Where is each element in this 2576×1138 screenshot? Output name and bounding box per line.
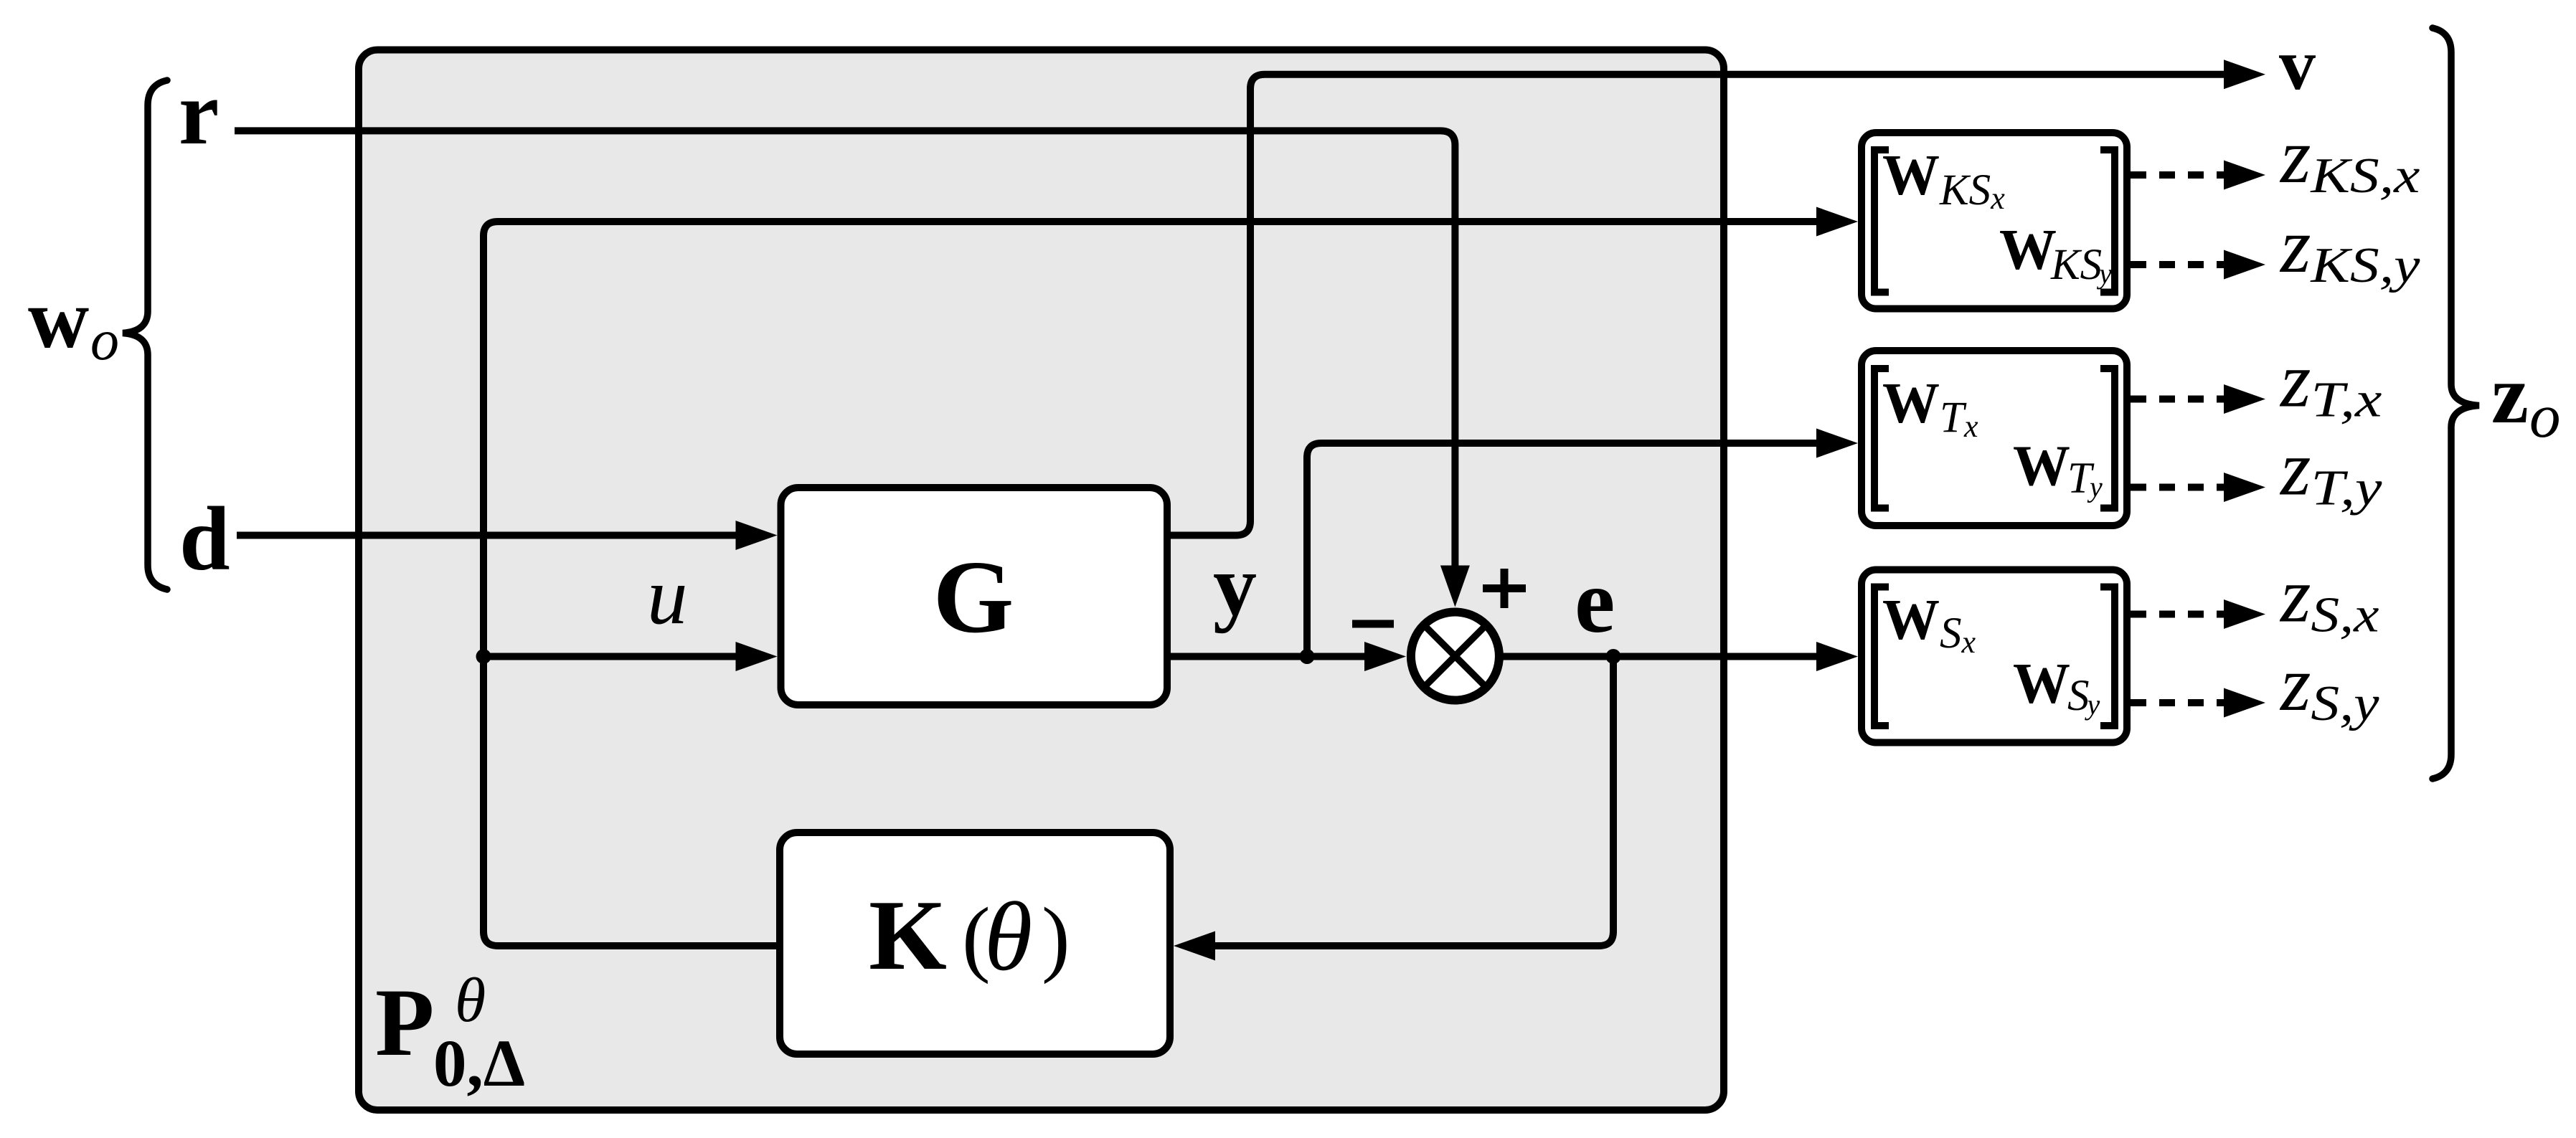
svg-text:e: e (1575, 551, 1615, 652)
svg-text:r: r (179, 63, 219, 163)
svg-text:u: u (647, 551, 688, 641)
svg-text:G: G (933, 540, 1014, 655)
svg-text:θ: θ (984, 882, 1032, 991)
svg-text:w: w (28, 272, 89, 366)
svg-text:y: y (1213, 537, 1257, 634)
svg-text:o: o (90, 309, 119, 372)
svg-text:θ: θ (455, 966, 486, 1035)
svg-text:o: o (2529, 381, 2561, 450)
svg-text:K: K (869, 880, 947, 991)
svg-text:z: z (2491, 348, 2529, 441)
svg-text:0,Δ: 0,Δ (433, 1027, 525, 1101)
svg-text:d: d (179, 489, 230, 589)
svg-text:): ) (1042, 890, 1070, 985)
svg-text:P: P (375, 969, 434, 1076)
svg-text:v: v (2279, 24, 2316, 105)
